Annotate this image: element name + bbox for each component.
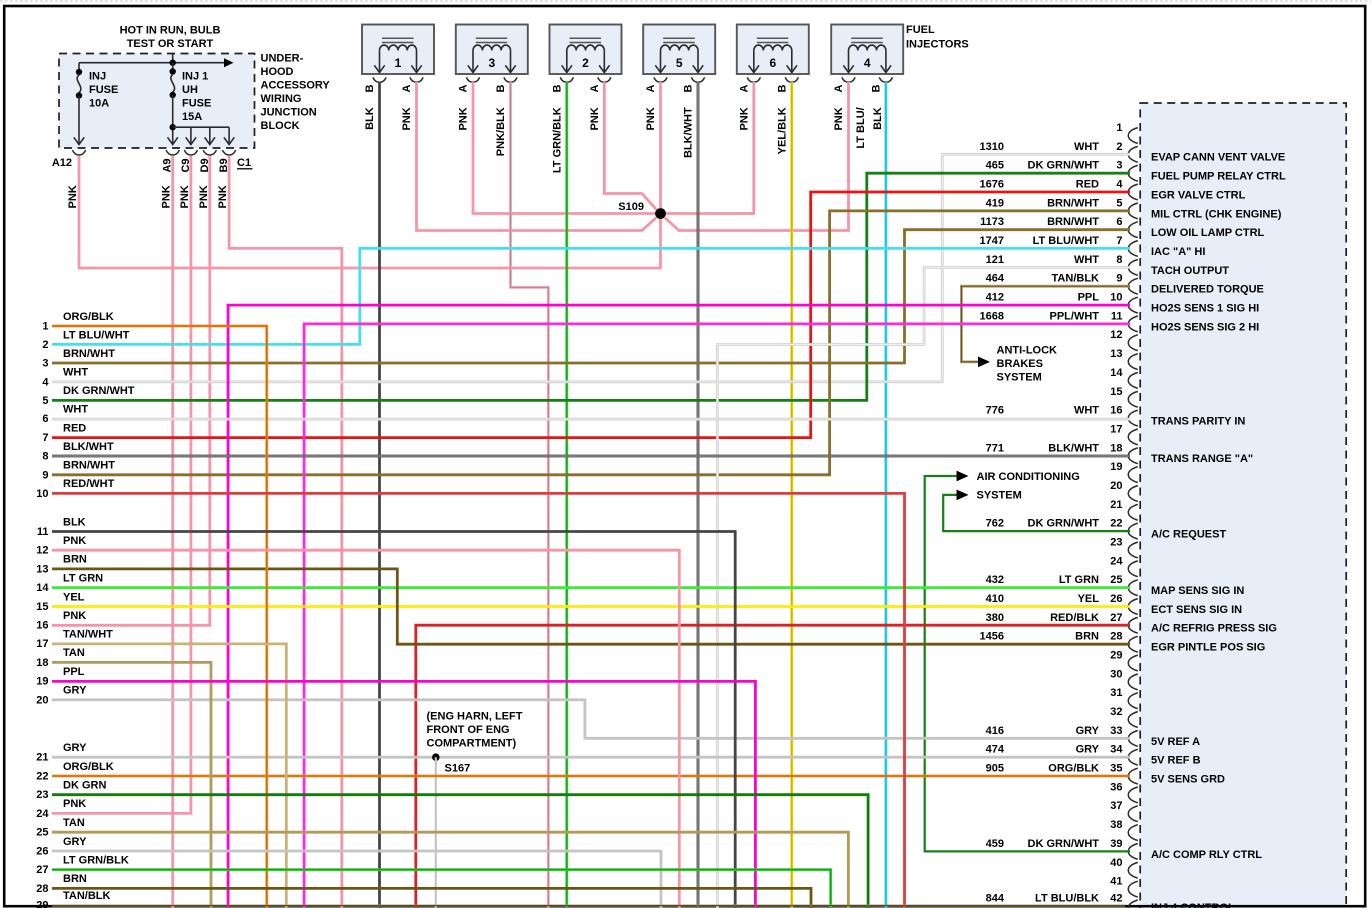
left wire 15 label YEL [36, 591, 84, 613]
svg-text:1: 1 [42, 321, 48, 333]
splice S109 [618, 201, 666, 219]
PCM pin 32 [1110, 706, 1138, 727]
left wire 3 label BRN/WHT [42, 348, 115, 370]
svg-text:BRN: BRN [1075, 631, 1099, 643]
svg-text:WIRING: WIRING [261, 93, 302, 105]
svg-text:PNK: PNK [198, 185, 210, 208]
svg-text:EVAP CANN VENT VALVE: EVAP CANN VENT VALVE [1151, 152, 1285, 164]
svg-text:ORG/BLK: ORG/BLK [1048, 763, 1099, 775]
wire LT GRN/BLK left 27 [52, 870, 831, 908]
svg-text:22: 22 [36, 771, 48, 783]
svg-text:21: 21 [36, 752, 48, 764]
wire BRN/WHT 419 pin 5 [52, 211, 1130, 475]
svg-text:29: 29 [1110, 650, 1122, 662]
svg-text:11: 11 [37, 526, 49, 538]
svg-text:19: 19 [36, 676, 48, 688]
PCM pin 8 [986, 254, 1230, 277]
svg-text:1747: 1747 [980, 235, 1004, 247]
svg-text:C1: C1 [237, 157, 251, 169]
svg-text:INJ 1: INJ 1 [182, 71, 208, 83]
svg-text:PNK/BLK: PNK/BLK [495, 107, 507, 156]
PCM pin 27 [986, 612, 1277, 635]
svg-text:BLK/WHT: BLK/WHT [683, 107, 695, 158]
PCM pin 42 [986, 892, 1235, 908]
fuse INJ FUSE 10A [74, 63, 119, 145]
svg-text:BLK: BLK [63, 516, 86, 528]
wire label PNK [589, 107, 601, 130]
svg-text:B: B [364, 85, 376, 93]
wire BLK/WHT injector 5 pin B [697, 82, 700, 908]
wire TAN/WHT left 17 [52, 644, 286, 908]
svg-text:ANTI-LOCK: ANTI-LOCK [997, 344, 1058, 356]
svg-text:8: 8 [1116, 254, 1122, 266]
PCM pin 9 [986, 273, 1264, 296]
left wire 25 label TAN [36, 817, 85, 839]
wire label BLK [364, 107, 376, 130]
wire PNK left 12 [52, 550, 679, 908]
wire DK GRN/WHT 465 pin 3 [52, 173, 1130, 400]
wire YEL/BLK injector 6 pin B [790, 82, 793, 908]
svg-text:465: 465 [986, 160, 1004, 172]
wire PNK injector 1 pin A [417, 82, 657, 231]
svg-text:2: 2 [582, 56, 589, 70]
svg-text:BRN/WHT: BRN/WHT [1047, 216, 1099, 228]
svg-text:23: 23 [36, 789, 48, 801]
svg-text:TAN/WHT: TAN/WHT [63, 629, 113, 641]
svg-text:17: 17 [36, 638, 48, 650]
svg-text:8: 8 [42, 451, 48, 463]
left wire 2 label LT BLU/WHT [42, 329, 129, 351]
svg-text:A: A [833, 85, 845, 93]
wire ORG/BLK 905 pin 35 [52, 775, 1130, 778]
wire WHT 1310 pin 2 [52, 154, 1130, 381]
svg-text:PNK: PNK [833, 107, 845, 130]
PCM pin 18 [986, 442, 1253, 465]
fuel injector 1 [362, 25, 434, 83]
svg-text:EGR VALVE CTRL: EGR VALVE CTRL [1151, 189, 1246, 201]
svg-text:B: B [495, 85, 507, 93]
wire PNK injector 2 pin A [604, 82, 656, 209]
svg-text:5: 5 [1116, 197, 1122, 209]
svg-text:26: 26 [36, 846, 48, 858]
wire BLK left 11 [52, 532, 735, 908]
wire PNK A9 [171, 156, 174, 908]
PCM pin 35 [986, 763, 1225, 786]
svg-text:459: 459 [986, 838, 1004, 850]
svg-text:LT BLU/: LT BLU/ [855, 107, 867, 148]
wire label YEL/BLK [776, 107, 788, 154]
svg-text:24: 24 [36, 808, 49, 820]
PCM pin 16 [986, 405, 1246, 428]
wire TAN/BLK 464 pin 9 [961, 286, 1130, 362]
wire WHT 776 pin 16 [52, 418, 1130, 421]
PCM pin 38 [1110, 819, 1138, 840]
svg-text:TRANS PARITY IN: TRANS PARITY IN [1151, 416, 1245, 428]
svg-text:PPL: PPL [1078, 292, 1100, 304]
svg-text:WHT: WHT [1074, 405, 1099, 417]
svg-text:PNK: PNK [63, 798, 86, 810]
injector 1 pin B [364, 85, 376, 93]
PCM pin 15 [1110, 386, 1138, 407]
svg-text:GRY: GRY [63, 685, 87, 697]
svg-text:A: A [589, 85, 601, 93]
svg-text:9: 9 [1116, 273, 1122, 285]
svg-text:9: 9 [42, 469, 48, 481]
svg-text:1: 1 [1116, 122, 1122, 134]
svg-text:DK GRN/WHT: DK GRN/WHT [1028, 838, 1100, 850]
svg-text:5V REF B: 5V REF B [1151, 755, 1201, 767]
svg-text:BLK: BLK [872, 107, 884, 130]
svg-text:DELIVERED TORQUE: DELIVERED TORQUE [1151, 284, 1264, 296]
wire label PNK [645, 107, 657, 130]
wire label PNK x=226.1 [217, 185, 229, 208]
label HOT IN RUN, BULB TEST OR START [120, 25, 221, 51]
left wire 5 label DK GRN/WHT [42, 385, 134, 407]
svg-text:INJECTORS: INJECTORS [906, 39, 969, 51]
svg-text:2: 2 [42, 339, 48, 351]
svg-text:20: 20 [1110, 480, 1122, 492]
svg-text:776: 776 [986, 405, 1004, 417]
wire label LT BLU/ BLK [855, 107, 884, 148]
wire BLK/WHT 771 pin 18 [52, 455, 1130, 458]
svg-text:A: A [401, 85, 413, 93]
svg-text:13: 13 [36, 563, 48, 575]
wire label PNK x=76 [67, 185, 79, 208]
left wire 27 label LT GRN/BLK [36, 855, 129, 877]
svg-text:16: 16 [36, 620, 48, 632]
svg-text:BRN/WHT: BRN/WHT [63, 348, 115, 360]
left wire 23 label DK GRN [36, 780, 106, 802]
svg-text:PNK: PNK [179, 185, 191, 208]
injector 4 pin A [833, 85, 845, 93]
svg-text:WHT: WHT [63, 403, 88, 415]
svg-text:RED: RED [63, 422, 86, 434]
wire BRN 1456 pin 28 [52, 569, 1130, 644]
svg-text:37: 37 [1110, 800, 1122, 812]
svg-text:15: 15 [36, 601, 48, 613]
svg-text:A: A [645, 85, 657, 93]
terminal C1 [237, 157, 253, 169]
svg-text:B: B [551, 85, 563, 93]
label ENG HARN location [427, 711, 523, 750]
fuel injector 2 [550, 25, 622, 83]
PCM pin 3 [986, 160, 1286, 183]
wire PNK A12 feed to S109 [79, 156, 661, 268]
svg-text:WHT: WHT [1074, 254, 1099, 266]
svg-text:FRONT OF ENG: FRONT OF ENG [427, 724, 510, 736]
PCM pin 39 [986, 838, 1263, 861]
svg-text:GRY: GRY [63, 836, 87, 848]
wire LT BLU/WHT 1747 pin 7 [52, 248, 1130, 344]
svg-text:SYSTEM: SYSTEM [977, 490, 1022, 502]
svg-text:21: 21 [1110, 499, 1122, 511]
svg-text:MAP SENS SIG IN: MAP SENS SIG IN [1151, 585, 1244, 597]
svg-text:380: 380 [986, 612, 1004, 624]
svg-text:HO2S SENS 1 SIG HI: HO2S SENS 1 SIG HI [1151, 303, 1259, 315]
svg-text:ORG/BLK: ORG/BLK [63, 311, 114, 323]
svg-text:7: 7 [42, 432, 48, 444]
svg-text:416: 416 [986, 725, 1004, 737]
svg-text:PPL/WHT: PPL/WHT [1050, 310, 1100, 322]
left wire 14 label LT GRN [36, 572, 103, 594]
svg-text:BLK/WHT: BLK/WHT [63, 441, 114, 453]
left wire 20 label GRY [36, 685, 87, 707]
svg-text:PPL: PPL [63, 666, 85, 678]
fuel injector 5 [643, 25, 715, 83]
PCM pin 14 [1110, 367, 1138, 388]
svg-text:771: 771 [986, 442, 1004, 454]
svg-text:TAN/BLK: TAN/BLK [1052, 273, 1100, 285]
svg-text:A: A [458, 85, 470, 93]
wire label PNK [458, 107, 470, 130]
wire RED 1676 pin 4 [52, 192, 1130, 438]
svg-text:38: 38 [1110, 819, 1122, 831]
svg-text:5: 5 [676, 56, 683, 70]
svg-text:DK GRN/WHT: DK GRN/WHT [63, 385, 135, 397]
svg-text:17: 17 [1110, 423, 1122, 435]
svg-text:35: 35 [1110, 763, 1122, 775]
svg-text:PNK: PNK [458, 107, 470, 130]
left wire 12 label PNK [36, 535, 86, 557]
PCM pin 30 [1110, 668, 1138, 689]
svg-text:PNK: PNK [63, 610, 86, 622]
svg-text:LT BLU/WHT: LT BLU/WHT [1033, 235, 1100, 247]
PCM pin 6 [980, 216, 1264, 239]
injector 4 pin B [870, 85, 882, 93]
svg-text:18: 18 [1110, 442, 1122, 454]
svg-text:4: 4 [42, 376, 49, 388]
svg-text:INJ 4 CONTROL: INJ 4 CONTROL [1151, 902, 1235, 908]
page top dotted edge [0, 0, 1371, 2]
fuse block connector cavities [72, 150, 235, 155]
PCM pin 13 [1110, 348, 1138, 369]
left wire 19 label PPL [36, 666, 84, 688]
left wire 17 label TAN/WHT [36, 629, 113, 651]
fuel injector 4 [831, 25, 903, 83]
injector 5 pin B [683, 85, 695, 93]
wire BRN left 28 [52, 888, 811, 908]
svg-text:LT GRN/BLK: LT GRN/BLK [63, 855, 129, 867]
svg-text:YEL: YEL [63, 591, 85, 603]
wire LT BLU/BLK injector 4 pin B [885, 82, 888, 908]
svg-text:FUSE: FUSE [182, 98, 211, 110]
svg-text:27: 27 [36, 864, 48, 876]
svg-text:GRY: GRY [1076, 725, 1100, 737]
svg-text:32: 32 [1110, 706, 1122, 718]
svg-text:TAN: TAN [63, 817, 85, 829]
svg-text:464: 464 [986, 273, 1005, 285]
svg-text:UNDER-: UNDER- [261, 53, 304, 65]
svg-text:DK GRN/WHT: DK GRN/WHT [1028, 160, 1100, 172]
fuse INJ 1 UH FUSE 15A [168, 63, 212, 145]
wire label PNK [833, 107, 845, 130]
svg-text:GRY: GRY [63, 742, 87, 754]
svg-text:5V REF A: 5V REF A [1151, 736, 1200, 748]
svg-text:28: 28 [1110, 631, 1122, 643]
wire RED/BLK 380 pin 27 [416, 625, 1130, 908]
svg-text:DK GRN: DK GRN [63, 780, 106, 792]
wire PPL left 19 [52, 681, 755, 908]
PCM pin 10 [986, 292, 1260, 315]
wire DK GRN/WHT 762 pin 22 [943, 495, 1130, 531]
svg-text:419: 419 [986, 197, 1004, 209]
PCM pin 36 [1110, 781, 1138, 802]
wire PNK B9 [229, 156, 342, 908]
svg-text:2: 2 [1116, 141, 1122, 153]
svg-text:JUNCTION: JUNCTION [261, 107, 317, 119]
fuse block output branch [170, 124, 235, 145]
svg-text:DK GRN/WHT: DK GRN/WHT [1028, 518, 1100, 530]
svg-text:ORG/BLK: ORG/BLK [63, 761, 114, 773]
left wire 22 label ORG/BLK [36, 761, 114, 783]
svg-text:MIL CTRL (CHK ENGINE): MIL CTRL (CHK ENGINE) [1151, 208, 1282, 220]
svg-text:905: 905 [986, 763, 1004, 775]
svg-text:22: 22 [1110, 518, 1122, 530]
wire PNK D9 to left wire 16 [52, 156, 210, 625]
svg-text:7: 7 [1116, 235, 1122, 247]
air conditioning system arrows [957, 471, 1080, 502]
svg-text:4: 4 [864, 56, 871, 70]
svg-text:20: 20 [36, 694, 48, 706]
svg-text:10A: 10A [89, 98, 109, 110]
svg-text:YEL/BLK: YEL/BLK [776, 107, 788, 154]
svg-text:ACCESSORY: ACCESSORY [261, 80, 331, 92]
wire TAN/BLK left 29 [52, 905, 1125, 907]
terminal A9 [162, 158, 174, 172]
terminal C9 [180, 158, 192, 172]
wire PNK injector 5 pin A [659, 82, 662, 208]
svg-text:LT GRN: LT GRN [63, 572, 103, 584]
svg-text:IAC "A" HI: IAC "A" HI [1151, 246, 1205, 258]
PCM pin 17 [1110, 423, 1138, 444]
svg-text:TAN/BLK: TAN/BLK [63, 890, 111, 902]
svg-text:BRN/WHT: BRN/WHT [1047, 197, 1099, 209]
svg-text:19: 19 [1110, 461, 1122, 473]
wire DK GRN left 23 [52, 795, 868, 908]
left wire 6 label WHT [42, 403, 88, 425]
svg-text:BLOCK: BLOCK [261, 120, 300, 132]
svg-text:1: 1 [395, 56, 402, 70]
svg-text:28: 28 [36, 883, 48, 895]
wire RED/WHT left 10 [52, 493, 905, 908]
svg-text:PNK: PNK [67, 185, 79, 208]
wire PPL 412 pin 10 [228, 305, 1130, 908]
svg-text:RED/WHT: RED/WHT [63, 478, 115, 490]
wire label PNK x=206.8 [198, 185, 210, 208]
svg-text:SYSTEM: SYSTEM [997, 371, 1042, 383]
svg-text:FUSE: FUSE [89, 84, 118, 96]
svg-text:YEL: YEL [1078, 593, 1100, 605]
svg-text:11: 11 [1111, 310, 1123, 322]
left wire 8 label BLK/WHT [42, 441, 114, 463]
svg-text:LOW OIL LAMP CTRL: LOW OIL LAMP CTRL [1151, 227, 1265, 239]
svg-text:23: 23 [1110, 537, 1122, 549]
fuel injector 6 [737, 25, 809, 83]
svg-text:BRN/WHT: BRN/WHT [63, 460, 115, 472]
svg-text:27: 27 [1110, 612, 1122, 624]
label FUEL INJECTORS [906, 24, 969, 51]
PCM pin 37 [1110, 800, 1138, 821]
svg-text:WHT: WHT [63, 367, 88, 379]
left wire 24 label PNK [36, 798, 86, 820]
svg-text:EGR PINTLE POS SIG: EGR PINTLE POS SIG [1151, 642, 1265, 654]
left wire 7 label RED [42, 422, 86, 444]
injector 5 pin A [645, 85, 657, 93]
terminal A12 [52, 157, 72, 169]
svg-text:PNK: PNK [738, 107, 750, 130]
injector 3 pin B [495, 85, 507, 93]
svg-text:PNK: PNK [161, 185, 173, 208]
wire BRN/WHT 1173 pin 6 [52, 230, 1130, 363]
PCM pin 21 [1110, 499, 1138, 520]
wire LT GRN/BLK injector 2 pin B [565, 82, 568, 908]
PCM pin 29 [1110, 650, 1138, 671]
svg-text:B: B [776, 85, 788, 93]
svg-text:TACH OUTPUT: TACH OUTPUT [1151, 265, 1229, 277]
wire GRY S167 branch [435, 757, 437, 908]
svg-text:6: 6 [42, 413, 48, 425]
left wire 13 label BRN [36, 554, 87, 576]
svg-text:LT GRN: LT GRN [1059, 574, 1099, 586]
wire label PNK [401, 107, 413, 130]
svg-text:INJ: INJ [89, 71, 106, 83]
svg-text:FUEL PUMP RELAY CTRL: FUEL PUMP RELAY CTRL [1151, 171, 1286, 183]
injector 2 pin B [551, 85, 563, 93]
left wire 28 label BRN [36, 873, 87, 895]
svg-text:33: 33 [1110, 725, 1122, 737]
svg-text:WHT: WHT [1074, 141, 1099, 153]
PCM pin 4 [980, 179, 1246, 202]
PCM pin 2 [980, 141, 1286, 164]
PCM pin 28 [980, 631, 1266, 654]
PCM pin 11 [980, 310, 1260, 333]
svg-text:4: 4 [1116, 179, 1123, 191]
svg-text:RED: RED [1076, 179, 1099, 191]
wire DK GRN/WHT 459 pin 39 [925, 476, 1130, 851]
PCM pin 31 [1110, 687, 1138, 708]
svg-text:40: 40 [1110, 857, 1122, 869]
svg-text:1456: 1456 [980, 631, 1004, 643]
injector 3 pin A [458, 85, 470, 93]
wire PNK injector 6 pin A [666, 82, 754, 214]
svg-text:1676: 1676 [980, 179, 1004, 191]
wire PNK injector 3 pin A [473, 82, 655, 214]
svg-text:(ENG HARN, LEFT: (ENG HARN, LEFT [427, 711, 523, 723]
wire label PNK [738, 107, 750, 130]
wire ORG/BLK left 1 [52, 326, 267, 908]
svg-text:10: 10 [36, 488, 48, 500]
wire PNK/BLK injector 3 pin B [511, 82, 549, 908]
underhood junction block (dashed box) [59, 54, 255, 149]
svg-text:A/C REFRIG PRESS SIG: A/C REFRIG PRESS SIG [1151, 623, 1277, 635]
injector 6 pin A [738, 85, 750, 93]
terminal D9 [199, 158, 211, 172]
wire TAN left 25 [52, 832, 848, 908]
svg-text:42: 42 [1110, 892, 1122, 904]
svg-text:LT BLU/WHT: LT BLU/WHT [63, 329, 130, 341]
svg-text:LT GRN/BLK: LT GRN/BLK [551, 107, 563, 173]
svg-text:TAN: TAN [63, 647, 85, 659]
svg-text:1668: 1668 [980, 310, 1004, 322]
terminal B9 [218, 158, 230, 172]
svg-text:A/C REQUEST: A/C REQUEST [1151, 529, 1226, 541]
wire label PNK x=187.9 [179, 185, 191, 208]
svg-text:10: 10 [1110, 292, 1122, 304]
svg-text:COMPARTMENT): COMPARTMENT) [427, 738, 517, 750]
svg-text:HOOD: HOOD [261, 66, 294, 78]
left wire 21 label GRY [36, 742, 87, 764]
svg-text:15A: 15A [182, 111, 202, 123]
